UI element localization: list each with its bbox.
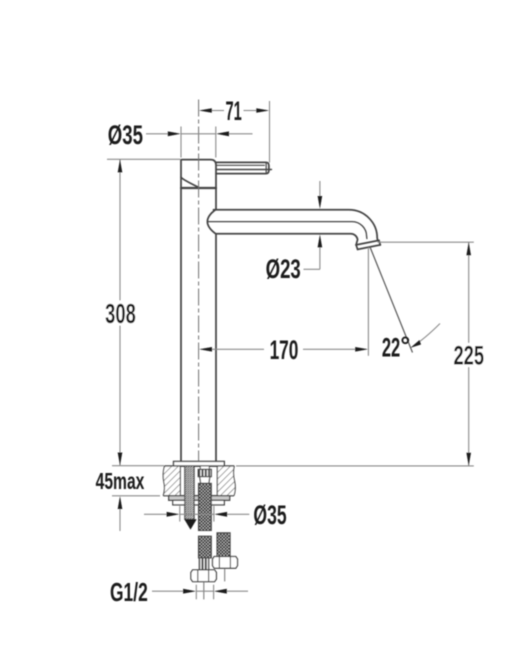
dim d35b tail right: [227, 513, 249, 515]
lever mid contour line: [216, 169, 272, 171]
dim d35 extension line left: [180, 127, 182, 158]
dim g12 right arrow: [214, 589, 227, 594]
svg-text:225: 225: [453, 340, 484, 370]
right hex nut facet lines: [219, 557, 230, 569]
water stream line: [370, 247, 413, 353]
dim d35 leader left: [146, 133, 168, 135]
deck top edge: [165, 465, 235, 467]
svg-text:G1/2: G1/2: [110, 578, 148, 607]
dim d35 tail right: [229, 133, 253, 135]
countertop deck left hatched section: [163, 466, 180, 496]
spout mid contour line and bend: [207, 222, 367, 239]
dim 308 vertical line: [119, 159, 121, 465]
dim d35b right arrow: [214, 512, 227, 517]
dim 71 line right part: [244, 110, 259, 112]
left hose G1/2 hex nut: [191, 570, 217, 582]
svg-text:71: 71: [225, 97, 241, 127]
degree symbol ring: [402, 337, 408, 343]
dim d35 extension line right: [215, 127, 217, 158]
dim d35b line across: [180, 513, 214, 515]
spout outlet face: [356, 240, 379, 245]
body column right edge lower: [215, 234, 217, 461]
spout top line and outer bend: [214, 210, 378, 240]
deck right broken edge: [233, 466, 235, 496]
dim d35b leader left: [144, 513, 167, 515]
right hose centerline: [224, 568, 226, 581]
stud pointed tip: [184, 519, 196, 529]
dim 71 line left part: [209, 110, 224, 112]
left braided hose lower: [199, 536, 212, 558]
right hose G1/2 hex nut: [213, 557, 238, 569]
svg-text:Ø23: Ø23: [266, 253, 301, 283]
dim 45max bottom extension line: [112, 495, 160, 497]
hose top neck: [200, 466, 209, 469]
spout bottom line and inner bend: [216, 234, 358, 245]
dim 45max lower tail: [119, 507, 121, 531]
aerator left edge: [356, 245, 358, 250]
dim g12 tail right: [227, 590, 248, 592]
dim 170 right arrow: [355, 347, 368, 352]
dim 71 left arrow: [199, 108, 212, 113]
dim 308 bottom arrow: [118, 453, 123, 466]
dim d23 upper tail: [319, 181, 321, 197]
right braided hose: [217, 533, 230, 557]
deck bottom edge: [163, 495, 234, 497]
dim 170 line left part: [212, 348, 265, 350]
dim d35 right arrow: [216, 131, 229, 136]
dim g12 tick right: [213, 585, 215, 600]
dim 308 top arrow: [118, 159, 123, 172]
dim 170 line right part: [303, 348, 356, 350]
dim d23 bottom arrow: [318, 234, 323, 247]
deck hole left edge: [179, 466, 181, 496]
dim 71 right arrow: [256, 108, 269, 113]
dim 225 top arrow: [466, 242, 471, 255]
base flange: [174, 461, 225, 466]
dim d35 line across: [181, 133, 216, 135]
aerator right edge: [379, 240, 380, 245]
countertop deck right hatched section: [217, 466, 235, 496]
body column left edge: [180, 188, 182, 461]
dim d23 lower tail: [319, 246, 321, 269]
svg-text:Ø35: Ø35: [108, 120, 143, 150]
dim d23 leader horizontal: [304, 268, 320, 270]
dim 225 bottom arrow: [466, 453, 471, 466]
left hose ferrule: [199, 558, 208, 570]
dim 71 extension line right: [269, 101, 271, 163]
dim 45max top extension line: [112, 465, 164, 467]
lever inner top line: [216, 164, 265, 166]
spout weld arc on column: [207, 209, 216, 234]
dim 225 top extension line: [378, 241, 474, 243]
lever end cap line: [265, 163, 267, 174]
dim g12 line across: [196, 590, 213, 592]
svg-text:170: 170: [270, 335, 299, 365]
angle arrow: [410, 340, 421, 348]
locknut under washer: [173, 500, 225, 505]
dim 170 extension line right: [367, 248, 369, 356]
left hex nut facet lines: [198, 570, 209, 582]
svg-text:308: 308: [105, 298, 136, 329]
dim 308 text halo: [103, 301, 138, 326]
aerator bottom face: [358, 245, 381, 250]
dim 225 text halo: [451, 343, 487, 367]
body column right edge upper: [215, 188, 217, 209]
dim g12 left arrow: [183, 589, 196, 594]
washer under deck: [169, 496, 230, 501]
dim d35b extension line right: [213, 506, 215, 522]
dim d35b left arrow: [167, 512, 180, 517]
svg-text:Ø35: Ø35: [253, 500, 286, 530]
left hose centerline: [203, 582, 205, 600]
dim d35b extension line left: [179, 506, 181, 522]
deck hole right edge: [216, 466, 218, 496]
handle skirt diagonal: [181, 177, 199, 187]
dim 308 top extension line: [107, 158, 181, 160]
dim 225 bottom extension line: [236, 465, 474, 467]
svg-text:22: 22: [382, 332, 400, 362]
dim 45max bottom arrow: [118, 496, 123, 509]
dim 170 left arrow: [199, 347, 212, 352]
dim d23 top arrow: [318, 196, 323, 209]
head block bottom edge: [181, 187, 216, 189]
hose collar: [200, 477, 210, 484]
faucet head block: [181, 160, 216, 188]
deck left broken edge: [163, 466, 164, 496]
body vertical centerline: [198, 100, 200, 462]
hose knurled nut: [198, 469, 211, 476]
dim g12 leader left: [152, 590, 184, 592]
left braided hose upper: [199, 483, 212, 530]
dim 225 vertical line: [468, 242, 470, 466]
threaded mounting stud: [185, 466, 195, 519]
angle leader arc: [413, 324, 440, 347]
svg-text:45max: 45max: [96, 469, 145, 495]
dim g12 tick left: [195, 585, 197, 600]
dim d35 left arrow: [168, 131, 181, 136]
lever handle outline: [216, 162, 269, 173]
